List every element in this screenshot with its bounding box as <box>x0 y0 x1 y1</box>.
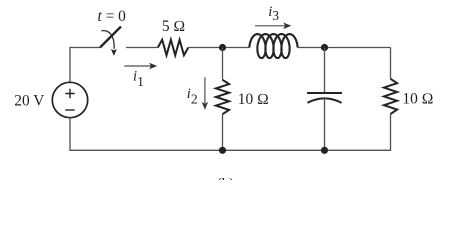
wire capacitor to bottom node <box>324 98 326 150</box>
wire middle resistor to bottom node <box>222 114 224 150</box>
wire node B down to capacitor <box>324 48 326 94</box>
minus sign inside source <box>65 109 74 111</box>
capacitor C top plate <box>307 92 342 94</box>
wire left rail bottom (source to bottom-left corner) <box>70 118 223 151</box>
wire right resistor to bottom-right corner <box>325 114 391 150</box>
svg-text:20 V: 20 V <box>14 92 44 109</box>
switch arrowhead <box>111 49 117 56</box>
svg-text:t = 0: t = 0 <box>98 8 127 25</box>
resistor R 10 ohm middle <box>216 80 229 114</box>
capacitor C curved bottom plate <box>308 98 342 102</box>
resistor R 10 ohm right <box>384 79 397 114</box>
current arrow i1 <box>124 63 157 69</box>
wire node A down to middle resistor <box>222 48 224 80</box>
wire top-right corner down to right resistor <box>390 48 392 79</box>
plus sign inside source <box>65 89 74 98</box>
wire 5-ohm resistor to inductor <box>188 47 249 49</box>
switch blade <box>100 27 121 48</box>
switch closing arc <box>102 31 115 49</box>
current arrow i2 <box>202 77 208 110</box>
node dot top-left (node A) <box>219 44 226 51</box>
wire bottom between nodes <box>223 149 325 151</box>
wire left rail top (source to top-left corner) <box>70 48 100 83</box>
svg-text:10 Ω: 10 Ω <box>402 90 433 107</box>
current arrow i3 <box>255 23 291 30</box>
svg-text:i3: i3 <box>268 4 279 23</box>
svg-text:10 Ω: 10 Ω <box>238 91 269 108</box>
wire switch to 5-ohm resistor <box>126 47 158 49</box>
resistor R 5 ohm <box>158 40 189 56</box>
inductor L (coil) <box>249 34 297 58</box>
svg-text:i1: i1 <box>133 68 144 89</box>
voltage source circle <box>52 82 87 117</box>
wire inductor to top-right corner <box>298 47 391 49</box>
node dot bottom-right <box>321 147 328 154</box>
svg-text:5 Ω: 5 Ω <box>162 18 185 35</box>
node dot top-right (node B) <box>321 44 328 51</box>
node dot bottom-left <box>219 147 226 154</box>
svg-text:(b): (b) <box>217 176 234 180</box>
svg-text:i2: i2 <box>187 86 198 107</box>
